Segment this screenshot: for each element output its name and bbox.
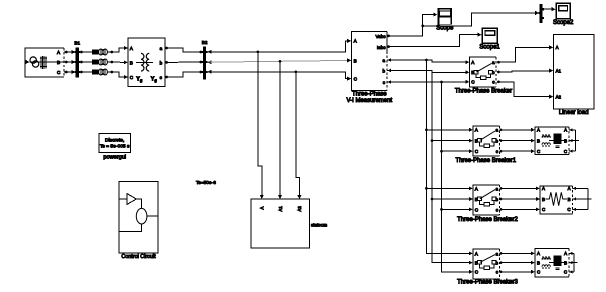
wire source B to bus B1	[64, 60, 75, 64]
breaker Three-Phase Breaker3 switch icon	[478, 255, 496, 270]
wire source A to bus B1	[64, 50, 75, 54]
powergui text line 2	[100, 144, 130, 150]
load load1 port labels left	[537, 128, 540, 154]
svg-text:Control Circuit: Control Circuit	[121, 254, 156, 260]
wire B2 b to V-I port B (diagonal)	[208, 58, 352, 64]
wire RL B to transformer B	[112, 60, 128, 64]
transformer Yg right	[151, 77, 158, 83]
control circuit gain triangle	[127, 194, 136, 205]
svg-text:B: B	[537, 260, 540, 265]
statcom block body	[251, 199, 310, 248]
load2 resistor zigzag	[546, 192, 568, 205]
svg-text:b: b	[382, 68, 385, 73]
load2 port labels right	[567, 186, 570, 212]
svg-text:a: a	[382, 58, 385, 63]
load load1 coil icon	[542, 134, 550, 147]
wire transformer b to bus B2	[165, 61, 202, 64]
breaker Three-Phase Breaker2 switch icon	[478, 190, 496, 206]
breaker Three-Phase Breaker3 port labels right	[495, 251, 498, 274]
source port label C	[57, 70, 61, 75]
load load3 body	[535, 249, 569, 277]
svg-text:C: C	[542, 207, 545, 212]
transformer winding left	[141, 53, 144, 71]
three-phase V-I measurement block	[352, 32, 388, 91]
wire B2 c to V-I port C	[208, 70, 352, 81]
wire breaker2 c to load2	[500, 207, 540, 211]
svg-text:Three-Phase Breaker1: Three-Phase Breaker1	[455, 158, 516, 164]
transformer Yg left	[136, 77, 143, 83]
V-I port label B	[354, 58, 357, 63]
wire tap b to breaker1 B	[432, 139, 473, 143]
breaker Three-Phase Breaker2 port labels left	[475, 186, 479, 212]
scope label Scope	[436, 26, 454, 32]
scope block Scope1	[482, 28, 497, 43]
linear load port label A1	[556, 68, 562, 73]
svg-text:A: A	[564, 251, 567, 256]
load load1 resistor block	[549, 134, 564, 148]
svg-text:A1: A1	[556, 68, 562, 73]
RL branch A inductor	[99, 49, 108, 55]
wire breaker c to linear load A2	[497, 80, 553, 98]
svg-text:A: A	[556, 45, 559, 50]
svg-text:V-I Measurement: V-I Measurement	[346, 98, 392, 104]
scope block Scope2	[556, 3, 570, 19]
scope block Scope	[438, 8, 452, 25]
svg-text:A2: A2	[297, 206, 302, 212]
linear load port label A	[556, 45, 559, 50]
svg-text:A: A	[537, 128, 540, 133]
load3 star connection	[569, 252, 577, 274]
transformer mid line	[136, 61, 153, 63]
three-phase breaker Three-Phase Breaker2 body	[473, 185, 500, 215]
transformer port label B	[130, 60, 133, 65]
linear load caption	[559, 110, 589, 116]
svg-text:C: C	[537, 270, 540, 275]
svg-text:Yg: Yg	[151, 77, 158, 83]
svg-text:A: A	[564, 128, 567, 133]
control circuit wire in	[119, 198, 127, 200]
V-I output label Iabc	[377, 45, 386, 50]
wire breaker1 a to load1	[500, 128, 535, 132]
RL branch B inductor	[99, 59, 108, 65]
svg-text:A2: A2	[556, 94, 562, 99]
V-I caption line 1	[352, 91, 387, 97]
transformer port label b	[160, 60, 163, 65]
V-I output label c	[383, 80, 386, 85]
bus B2	[202, 47, 208, 80]
breaker Three-Phase Breaker switch icon	[474, 63, 492, 79]
bus B1 label	[74, 40, 80, 45]
powergui caption	[103, 154, 126, 160]
three-phase breaker Three-Phase Breaker body	[470, 57, 497, 87]
svg-text:Three-Phase: Three-Phase	[352, 91, 387, 97]
bus B2 label	[202, 40, 208, 45]
powergui text line 1	[105, 138, 124, 144]
transformer port label A	[130, 46, 134, 51]
load load3 port labels left	[537, 251, 540, 274]
transformer port label C	[130, 75, 134, 80]
svg-text:Vabc: Vabc	[375, 34, 386, 39]
svg-text:B: B	[57, 60, 60, 65]
statcom port label A1	[278, 206, 283, 212]
svg-text:a: a	[492, 60, 495, 65]
svg-text:B: B	[130, 60, 133, 65]
svg-text:Three-Phase Breaker3: Three-Phase Breaker3	[457, 280, 518, 286]
RL branch B output wire	[107, 61, 113, 64]
load load2 body	[540, 186, 573, 214]
load2 star connection	[573, 187, 592, 211]
three-phase breaker Three-Phase Breaker3 body	[473, 249, 500, 279]
V-I port label C	[354, 77, 358, 82]
source machine circles	[30, 57, 39, 67]
source coil icon	[40, 56, 47, 69]
svg-text:Scope: Scope	[436, 26, 454, 32]
wire breaker3 a to load3	[500, 251, 535, 255]
svg-text:C: C	[537, 149, 540, 154]
wire tap b to breaker2 B	[432, 197, 473, 201]
wire Vabc branch to mux	[423, 11, 540, 26]
wire transformer a to bus B2	[165, 47, 202, 54]
RL branch C inductor	[99, 69, 108, 75]
transformer port label c	[160, 75, 163, 80]
breaker Three-Phase Breaker port labels right	[492, 60, 495, 85]
svg-text:a: a	[495, 251, 498, 256]
svg-text:Three-Phase Breaker: Three-Phase Breaker	[455, 88, 512, 94]
wire breaker3 b to load3	[500, 261, 535, 265]
wire B2 a to V-I port A	[208, 39, 352, 54]
load load3 coil icon	[542, 256, 550, 269]
control circuit body	[119, 182, 158, 254]
wire bus B1 to RL branch B	[80, 61, 92, 64]
wire breaker1 c to load1	[500, 149, 535, 153]
control circuit link	[136, 199, 141, 208]
V-I output label a	[382, 58, 385, 63]
control circuit wire bottom	[119, 224, 142, 232]
svg-text:powergui: powergui	[103, 154, 126, 160]
load load1 body	[535, 127, 569, 155]
svg-text:Yg: Yg	[136, 77, 143, 83]
source port label A	[57, 50, 61, 55]
source port label B	[57, 60, 60, 65]
svg-text:C: C	[567, 207, 570, 212]
svg-text:A: A	[537, 251, 540, 256]
wire Iabc to Scope1	[387, 33, 482, 48]
three-phase source block	[25, 48, 64, 77]
wire source C to bus B1	[64, 70, 75, 74]
wire breaker2 a to load2	[500, 186, 540, 190]
statcom port label A	[260, 207, 265, 210]
load2 port labels left	[542, 186, 545, 212]
vertical tap phase b	[431, 70, 473, 264]
svg-text:B: B	[564, 260, 567, 265]
svg-text:A: A	[542, 186, 545, 191]
wire V-I b to breaker B	[387, 69, 469, 75]
wire breaker1 b to load1	[500, 139, 535, 143]
svg-text:B: B	[354, 58, 357, 63]
wire breaker3 c to load3	[500, 270, 535, 274]
svg-text:B: B	[542, 197, 545, 202]
annotation Ts=50e-6	[196, 180, 216, 186]
wire breaker2 b to load2	[500, 197, 540, 201]
svg-text:a: a	[495, 186, 498, 191]
wire bus B1 to RL branch A	[80, 51, 92, 54]
RL branch C output wire	[107, 71, 113, 74]
wire bus B1 to RL branch C	[80, 71, 92, 74]
svg-text:C: C	[564, 270, 567, 275]
transformer port label a	[160, 46, 163, 51]
V-I output label Vabc	[375, 34, 386, 39]
mux bus bar	[538, 4, 543, 23]
wire Vabc to Scope	[387, 13, 437, 38]
breaker Three-Phase Breaker port labels left	[471, 60, 475, 85]
breaker Three-Phase Breaker2 port labels right	[495, 186, 498, 212]
load1 star connection	[569, 128, 579, 153]
wire tap B down to statcom	[278, 61, 282, 199]
wire tap a to breaker1 A	[426, 128, 472, 132]
statcom port label A2	[297, 206, 302, 212]
wire transformer c to bus B2	[165, 71, 202, 79]
wire RL C to transformer C	[112, 72, 128, 79]
transformer winding right	[146, 53, 149, 71]
breaker Three-Phase Breaker1 caption	[455, 158, 516, 164]
bus B1	[74, 47, 80, 77]
wire mux to Scope2	[544, 7, 556, 11]
vertical tap phase c	[440, 82, 473, 274]
RL branch B resistor	[92, 59, 99, 64]
svg-text:Three-Phase Breaker2: Three-Phase Breaker2	[457, 217, 518, 223]
V-I caption line 2	[346, 98, 392, 104]
control circuit caption	[121, 254, 156, 260]
wire V-I c to breaker C	[387, 80, 469, 84]
svg-text:Linear load: Linear load	[559, 110, 589, 116]
breaker Three-Phase Breaker3 caption	[457, 280, 518, 286]
breaker Three-Phase Breaker1 switch icon	[478, 131, 496, 148]
V-I output label b	[382, 68, 385, 73]
svg-text:C: C	[564, 149, 567, 154]
svg-text:A: A	[260, 207, 265, 210]
svg-text:Scope1: Scope1	[479, 45, 500, 51]
RL branch A resistor	[92, 49, 99, 54]
wire tap a to breaker2 A	[426, 186, 472, 190]
load load1 port labels right	[564, 128, 567, 154]
source input arrow mark	[26, 60, 30, 64]
wire tap c to breaker2 C	[442, 207, 473, 211]
wire V-I a to breaker A	[387, 58, 469, 64]
svg-text:B: B	[568, 197, 571, 202]
load load3 port labels right	[564, 251, 567, 274]
breaker Three-Phase Breaker2 caption	[457, 217, 518, 223]
breaker Three-Phase Breaker1 port labels right	[495, 128, 498, 154]
svg-text:a: a	[495, 128, 498, 133]
control circuit wire right	[147, 215, 158, 217]
svg-text:B1: B1	[74, 40, 80, 45]
breaker Three-Phase Breaker1 port labels left	[475, 128, 479, 154]
linear load block	[554, 35, 595, 110]
control circuit source ellipse	[136, 208, 147, 224]
wire tap c to breaker1 C	[442, 149, 473, 153]
svg-text:a: a	[160, 46, 163, 51]
svg-text:B2: B2	[202, 40, 208, 45]
wire tap A down to statcom	[258, 52, 264, 199]
linear load port label A2	[556, 94, 562, 99]
svg-text:Ts = 5e-005 s: Ts = 5e-005 s	[100, 144, 130, 150]
vertical tap phase a	[425, 60, 473, 255]
svg-text:B: B	[564, 138, 567, 143]
source internal wire	[30, 61, 64, 63]
svg-text:Scope2: Scope2	[553, 20, 574, 26]
svg-text:Ts=50e-6: Ts=50e-6	[196, 180, 216, 186]
svg-text:statcom: statcom	[311, 223, 327, 228]
svg-text:B: B	[537, 138, 540, 143]
three-phase breaker Three-Phase Breaker1 body	[473, 126, 500, 156]
three-phase transformer T1	[128, 38, 165, 87]
breaker Three-Phase Breaker caption	[455, 88, 512, 94]
wire breaker b to linear load A1	[497, 69, 553, 74]
V-I port label A	[354, 39, 358, 44]
wire breaker a to linear load A	[497, 45, 553, 63]
scope label Scope1	[479, 45, 500, 51]
svg-text:A: A	[568, 186, 571, 191]
wire RL A to transformer A	[112, 46, 128, 52]
svg-text:Discrete,: Discrete,	[105, 138, 124, 144]
wire tap C down to statcom	[296, 72, 302, 199]
RL branch C resistor	[92, 69, 99, 74]
svg-text:b: b	[160, 60, 163, 65]
breaker Three-Phase Breaker3 port labels left	[475, 251, 479, 274]
svg-text:A1: A1	[278, 206, 283, 212]
svg-text:Iabc: Iabc	[377, 45, 386, 50]
RL branch A output wire	[107, 51, 113, 54]
load load3 resistor block	[549, 256, 564, 270]
powergui block	[99, 134, 131, 153]
scope label Scope2	[553, 20, 574, 26]
statcom caption	[311, 223, 327, 228]
